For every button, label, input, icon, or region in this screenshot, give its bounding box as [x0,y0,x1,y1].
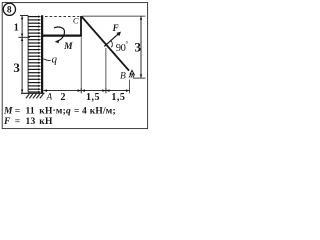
distributed load arrowheads [38,15,41,93]
svg-text:B: B [120,72,126,82]
distributed load q arrows [28,17,38,92]
extension line below B [129,80,131,94]
border frame [2,3,147,129]
svg-text:M: M [63,42,73,52]
svg-text:3: 3 [135,39,142,54]
90 degree angle arc [111,41,112,48]
bottom extension line at B support [133,77,146,79]
fixed support ground at A [21,93,45,98]
diagonal member C-B [81,16,129,70]
dimension 3 line (left) [21,38,23,93]
svg-text:1: 1 [14,22,19,33]
svg-text:1,5: 1,5 [86,92,100,103]
svg-text:3: 3 [13,60,20,75]
svg-text:C: C [73,15,79,25]
top extension line from C [82,15,145,17]
svg-text:F=13кН: F=13кН [3,117,53,127]
svg-text:8: 8 [7,6,12,16]
moment M arc arrow [54,27,65,41]
dimension 1 arrows [21,16,23,20]
svg-text:A: A [46,92,53,102]
dashed reference line at top [45,15,79,17]
svg-text:M=11кН·м;q=4кН/м;: M=11кН·м;q=4кН/м; [3,107,116,117]
svg-text:1,5: 1,5 [111,92,125,103]
dimension 1 extension lines (left top) [18,16,30,38]
extension line below F point [105,48,107,90]
q label leader [43,59,50,61]
svg-text:2: 2 [61,92,66,103]
force F arrow [104,33,119,46]
bottom dimension chain line [43,88,129,94]
svg-text:q: q [51,53,57,65]
problem number badge 8 [3,3,15,15]
beam member (horizontal) [41,34,82,36]
roller support at B [129,70,135,77]
bottom dimension arrows [43,89,129,92]
column member at A (vertical) [41,15,43,93]
vertical member below C [80,16,82,36]
extension line below frame corner [80,37,82,90]
svg-text:F: F [112,23,119,33]
distributed load q tail line [27,15,29,92]
dimension 3 line (right) [140,16,142,78]
